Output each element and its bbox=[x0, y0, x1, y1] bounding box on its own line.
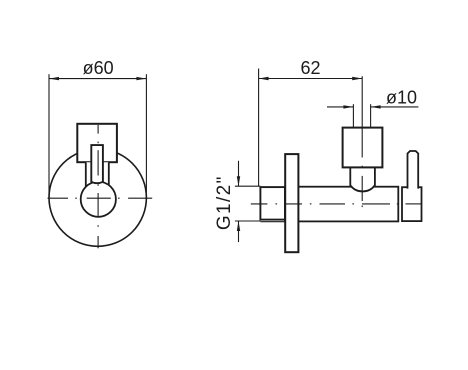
svg-text:ø10: ø10 bbox=[386, 87, 417, 107]
svg-text:G1/2": G1/2" bbox=[214, 175, 235, 230]
svg-text:ø60: ø60 bbox=[83, 58, 114, 78]
svg-text:62: 62 bbox=[300, 58, 320, 78]
